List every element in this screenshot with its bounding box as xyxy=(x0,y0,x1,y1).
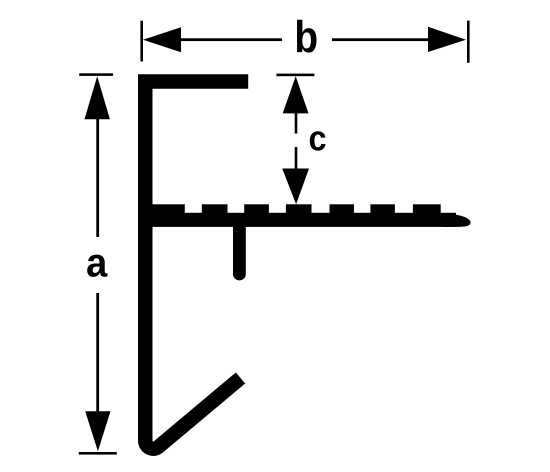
dimension c: up arrowhead xyxy=(283,76,309,113)
profile main body: top bar, left leg and bottom hook xyxy=(145,82,248,449)
dimension a: up arrowhead xyxy=(85,76,110,119)
dimension a: down arrowhead xyxy=(85,411,110,451)
flange rib 3 xyxy=(244,204,269,214)
label c xyxy=(310,131,326,151)
dimension b: line right segment xyxy=(332,38,429,41)
flange rib 6 xyxy=(370,204,395,214)
dimension a: bottom tick xyxy=(79,452,117,455)
label a xyxy=(87,255,107,277)
flange rib 5 xyxy=(330,204,355,214)
drip stub under flange xyxy=(233,222,246,274)
dimension c: down arrowhead xyxy=(282,169,309,205)
dimension a: top tick xyxy=(79,73,113,76)
flange rib 4 xyxy=(286,204,312,214)
label b xyxy=(297,20,317,53)
dimension a: line lower segment xyxy=(96,293,99,412)
dimension b: right tick xyxy=(467,21,470,63)
dimension a: line upper segment xyxy=(96,118,99,237)
dimension b: left arrowhead xyxy=(143,27,181,52)
dimension b: line left segment xyxy=(180,38,282,41)
profile ribbed flange bar xyxy=(153,213,471,227)
dimension b: left tick xyxy=(140,21,143,62)
dimension b: right arrowhead xyxy=(428,27,466,52)
flange rib 7 xyxy=(413,204,441,214)
dimension c: line upper segment xyxy=(295,112,298,133)
flange rib 1 (root) xyxy=(153,204,185,214)
dimension c: top tick xyxy=(276,74,314,77)
flange rib 2 xyxy=(202,204,228,214)
dimension c: line lower segment xyxy=(295,147,298,169)
